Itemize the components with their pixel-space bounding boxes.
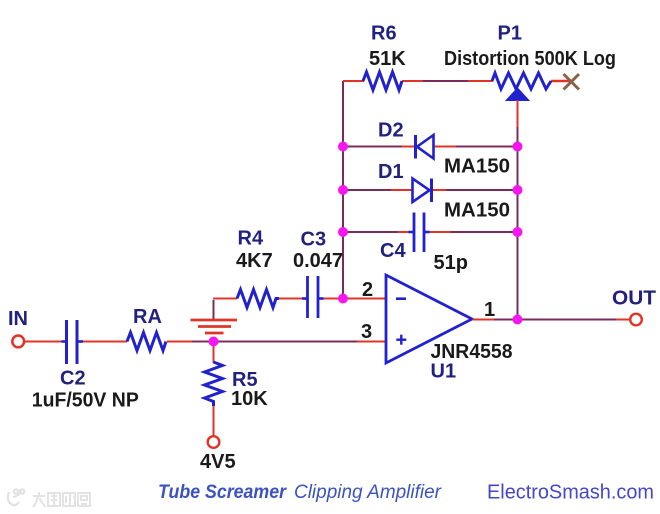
svg-text:C4: C4 <box>380 240 406 262</box>
resistor R5 <box>205 362 223 406</box>
wire D1 row <box>343 189 518 191</box>
diode D1 <box>413 179 432 203</box>
junction D2 left <box>338 142 348 152</box>
svg-text:D2: D2 <box>378 120 404 142</box>
svg-text:OUT: OUT <box>612 288 656 310</box>
wire R4-C3 row to pin2 <box>213 298 386 300</box>
svg-text:10K: 10K <box>231 388 268 410</box>
junction pin2 node <box>338 294 348 304</box>
svg-text:Distortion 500K Log: Distortion 500K Log <box>444 48 616 70</box>
svg-text:IN: IN <box>8 308 28 330</box>
svg-text:51p: 51p <box>434 252 468 274</box>
wire R5 branch <box>213 342 215 437</box>
wire C4 row <box>343 231 518 233</box>
svg-text:MA150: MA150 <box>444 200 510 222</box>
svg-text:R4: R4 <box>238 228 264 250</box>
svg-text:P1: P1 <box>498 23 522 45</box>
wire input row <box>24 341 387 343</box>
wire left feedback rail <box>342 81 344 298</box>
no-connect X <box>564 74 580 90</box>
op-amp U1 <box>386 275 472 363</box>
svg-text:Clipping Amplifier: Clipping Amplifier <box>294 482 442 503</box>
svg-text:51K: 51K <box>369 48 406 70</box>
wire output row <box>473 319 631 321</box>
svg-text:0.047: 0.047 <box>293 250 343 272</box>
diode D2 <box>416 135 434 159</box>
potentiometer P1 <box>492 73 551 127</box>
svg-text:D1: D1 <box>378 161 404 183</box>
capacitor C4 <box>409 213 430 253</box>
svg-text:1: 1 <box>484 299 495 321</box>
watermark <box>8 489 24 505</box>
svg-text:RA: RA <box>133 306 162 328</box>
svg-text:MA150: MA150 <box>444 156 510 178</box>
svg-text:C2: C2 <box>60 368 86 390</box>
caption <box>158 482 442 503</box>
junction output node <box>513 315 523 325</box>
svg-text:4V5: 4V5 <box>200 451 236 473</box>
terminal IN <box>12 336 24 348</box>
svg-text:4K7: 4K7 <box>236 250 273 272</box>
ground stem <box>213 300 215 319</box>
terminal 4V5 <box>208 436 220 448</box>
wire D2 row <box>343 146 518 148</box>
svg-text:R6: R6 <box>371 23 397 45</box>
junction D1 left <box>338 185 348 195</box>
junction input node <box>209 337 219 347</box>
svg-text:Tube Screamer: Tube Screamer <box>158 482 287 503</box>
capacitor C3 <box>302 276 324 318</box>
resistor R4 <box>237 290 279 308</box>
junction C4 left <box>338 227 348 237</box>
terminal OUT <box>630 314 642 326</box>
junction D1 right <box>513 185 523 195</box>
svg-text:3: 3 <box>361 321 372 343</box>
ground <box>191 320 238 333</box>
svg-text:U1: U1 <box>431 361 457 383</box>
svg-text:2: 2 <box>362 279 373 301</box>
wire top row R6-P1 <box>343 80 571 82</box>
capacitor C2 <box>62 320 84 364</box>
resistor R6 <box>363 72 402 90</box>
resistor RA <box>127 333 166 351</box>
svg-text:JNR4558: JNR4558 <box>431 341 513 363</box>
svg-text:C3: C3 <box>301 229 327 251</box>
svg-text:1uF/50V NP: 1uF/50V NP <box>32 390 139 412</box>
wire right feedback rail <box>517 125 519 320</box>
junction D2 right <box>513 142 523 152</box>
junction C4 right <box>513 227 523 237</box>
svg-text:ElectroSmash.com: ElectroSmash.com <box>487 482 654 504</box>
